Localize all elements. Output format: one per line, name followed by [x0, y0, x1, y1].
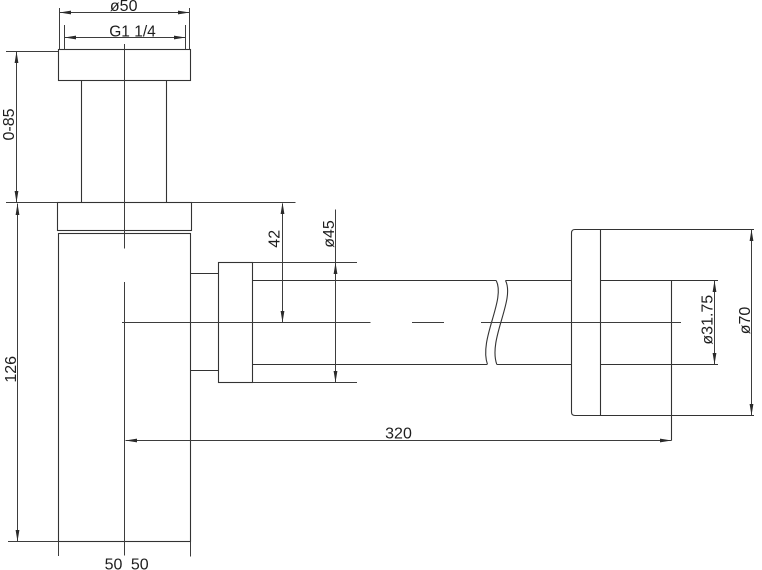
G1 1/4 dimension line — [65, 37, 186, 39]
horizontal centerline segment 2 — [412, 322, 444, 324]
arrow 320 left — [126, 439, 138, 443]
svg-text:320: 320 — [385, 425, 412, 442]
tailpiece column left wall — [81, 81, 83, 203]
arrow dia50 left — [60, 11, 72, 15]
dia50 dimension line — [60, 12, 190, 14]
G1 1/4 extension left — [64, 25, 66, 50]
arrow 42 bottom — [281, 311, 285, 323]
svg-text:42: 42 — [267, 230, 284, 248]
arrow 0-85 top — [15, 52, 19, 64]
arrow dia31.75 bottom — [713, 353, 717, 365]
dia45 top extension — [253, 262, 358, 264]
arrow G1 left — [65, 36, 77, 40]
arrow dia50 right — [178, 11, 190, 15]
pipe top edge left of break — [253, 280, 497, 282]
arrow 0-85 bottom — [15, 191, 19, 203]
trap lid — [58, 203, 192, 231]
arrow dia45 top — [334, 263, 338, 275]
dia50 extension left — [59, 8, 61, 50]
vertical centerline upper — [124, 44, 126, 249]
arrow 126 bottom — [16, 530, 20, 542]
svg-text:0-85: 0-85 — [1, 108, 18, 140]
0-85 bottom extension — [6, 202, 58, 204]
dia70 dimension line — [751, 230, 753, 416]
svg-text:126: 126 — [3, 356, 20, 383]
pipe break curve 1 — [486, 281, 499, 365]
dia50 extension right — [189, 8, 191, 50]
dia45 bottom extension — [253, 382, 358, 384]
0-85 top extension — [6, 51, 58, 53]
horizontal centerline segment 1 — [122, 322, 371, 324]
50 extension left below body — [58, 542, 60, 557]
arrow dia45 bottom — [334, 371, 338, 383]
svg-text:50: 50 — [105, 556, 123, 570]
arrow 320 right — [660, 439, 672, 443]
arrow dia70 top — [750, 230, 754, 242]
top flange (tailpiece flange) — [59, 50, 191, 81]
svg-text:G1 1/4: G1 1/4 — [109, 24, 156, 41]
svg-text:ø50: ø50 — [110, 0, 138, 15]
126 dimension line — [17, 204, 19, 542]
svg-text:ø70: ø70 — [737, 307, 754, 335]
320 dimension line — [126, 440, 672, 442]
pipe end edge / 320 extension — [671, 281, 673, 441]
42 dimension line — [282, 204, 284, 323]
arrow 126 top — [16, 204, 20, 216]
outlet stub bottom edge — [191, 370, 219, 372]
arrow dia31.75 top — [713, 281, 717, 293]
pipe bottom edge left of break — [253, 364, 488, 366]
pipe top edge through wall flange + dia31.75 extension — [601, 280, 719, 282]
dia45 dimension line — [335, 210, 337, 383]
50 extension right below body — [190, 542, 192, 557]
42 top extension — [192, 202, 296, 204]
wall flange plate outline + dia70 extensions — [572, 230, 755, 416]
trap body — [59, 234, 191, 542]
wall flange inner face — [600, 230, 602, 416]
pipe bottom edge through wall flange + dia31.75 extension — [601, 364, 719, 366]
outlet stub top edge — [191, 273, 219, 275]
compression nut — [219, 263, 253, 383]
horizontal centerline segment 3 — [481, 322, 681, 324]
arrow 42 top — [281, 203, 285, 215]
126 bottom extension — [8, 541, 59, 543]
tailpiece column right wall — [166, 81, 168, 203]
dia31.75 dimension line — [714, 281, 716, 365]
0-85 dimension line — [16, 52, 18, 203]
arrow G1 right — [174, 36, 186, 40]
vertical centerline lower — [124, 282, 126, 556]
G1 1/4 extension right — [185, 25, 187, 50]
svg-text:ø45: ø45 — [321, 220, 338, 248]
svg-text:50: 50 — [131, 556, 149, 570]
pipe break curve 2 — [495, 281, 508, 365]
pipe bottom edge right of break — [497, 364, 572, 366]
svg-text:ø31.75: ø31.75 — [700, 295, 717, 345]
arrow dia70 bottom — [750, 404, 754, 416]
pipe top edge right of break — [506, 280, 572, 282]
